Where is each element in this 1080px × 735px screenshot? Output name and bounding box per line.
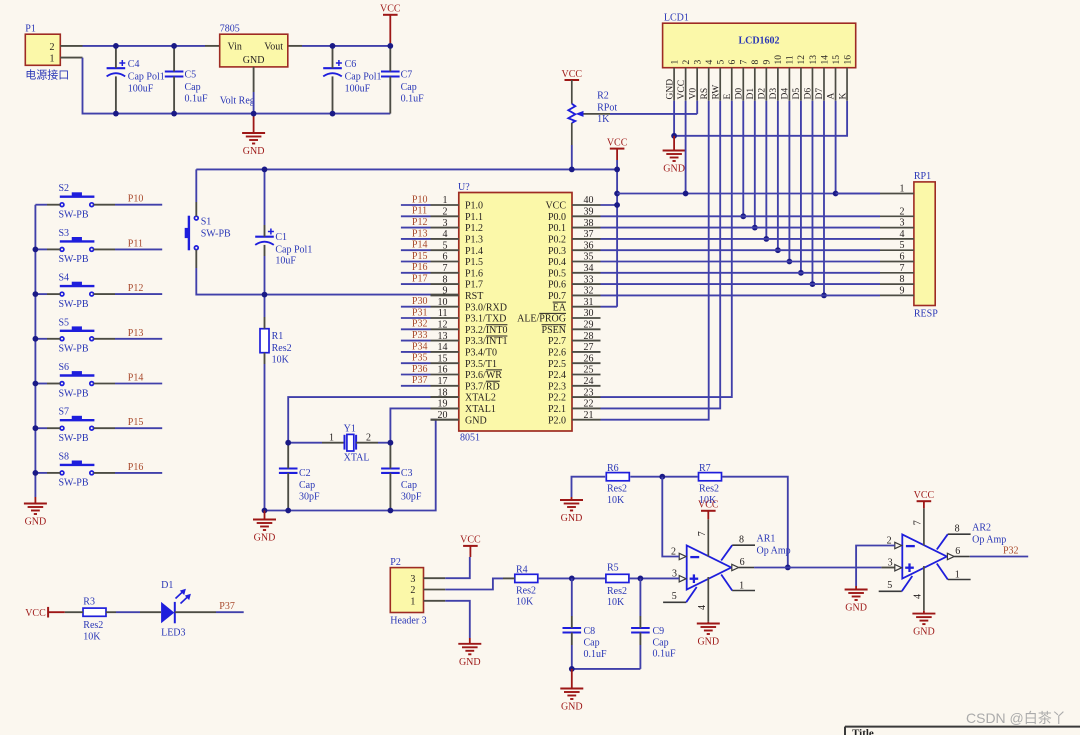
svg-text:6: 6 [900,252,905,263]
pin U? 7 [431,263,484,279]
svg-text:7: 7 [740,60,750,65]
capacitor C8 [563,578,608,669]
svg-text:P16: P16 [412,262,428,273]
pin U? XTAL1 [431,407,459,409]
svg-text:PSEN: PSEN [542,325,566,336]
svg-text:1: 1 [50,53,55,64]
wire LCD D4 [788,101,790,262]
svg-text:R3: R3 [83,596,95,607]
svg-text:GND: GND [254,533,276,544]
svg-text:P2.0: P2.0 [548,415,566,426]
capacitor C2 [279,443,320,511]
power VCC pot [562,69,583,104]
svg-text:VCC: VCC [914,490,935,501]
wire VCC column [616,160,618,307]
junction [330,111,336,117]
pin LCD 10 D3 [769,68,779,101]
svg-text:K: K [838,93,848,100]
pin U? 17 [431,376,500,392]
wire net stub [401,385,431,387]
svg-text:19: 19 [438,399,448,410]
svg-text:AR2: AR2 [972,523,991,534]
resistor R3 [72,596,116,642]
op IC U? 8051 body [458,182,572,444]
svg-text:R2: R2 [597,90,609,101]
wire net P37 [216,611,244,613]
pin LCD 6 E [723,68,733,101]
svg-text:Vout: Vout [264,42,283,53]
wire VCC bus [617,193,880,195]
wire P0.6 bus [601,283,881,285]
svg-text:P3.2/INT0: P3.2/INT0 [465,325,508,336]
pin U? 8 [431,274,484,290]
junction [638,576,644,582]
svg-text:R5: R5 [607,563,619,574]
svg-text:23: 23 [584,387,594,398]
junction [798,270,804,276]
junction [569,576,575,582]
junction [614,191,620,197]
pin P2-3 [424,577,446,579]
svg-text:ALE/PROG: ALE/PROG [517,314,566,325]
svg-text:P2.7: P2.7 [548,336,566,347]
svg-text:Vin: Vin [228,42,242,53]
svg-text:C8: C8 [584,626,596,637]
svg-text:GND: GND [465,415,487,426]
resistor R7 [699,463,722,506]
wire vcc-R3 [65,611,72,613]
pin U? 4 [431,229,484,245]
pin U? 29 [542,320,601,336]
svg-text:Res2: Res2 [699,484,719,495]
wire AR1 in- column [662,477,679,557]
svg-text:P31: P31 [412,307,428,318]
power VCC ar2 [914,490,935,508]
svg-text:P12: P12 [128,283,144,294]
svg-text:SW-PB: SW-PB [59,478,89,489]
svg-text:P0.5: P0.5 [548,268,566,279]
wire pot bottom [571,145,573,169]
connector P2 [390,557,426,626]
svg-text:30pF: 30pF [299,491,320,502]
pin U? 32 [548,286,601,302]
svg-text:1: 1 [955,569,960,580]
svg-text:GND: GND [243,55,265,66]
wire bottom rail [83,58,391,114]
svg-text:Cap: Cap [185,82,201,93]
svg-text:27: 27 [584,342,594,353]
ground GND p2 [458,638,481,668]
svg-text:Res2: Res2 [83,620,103,631]
pin U? 38 [548,218,601,234]
junction [763,236,769,242]
junction [810,281,816,287]
wire net stub [401,261,431,263]
junction [262,292,268,298]
svg-text:11: 11 [786,55,796,64]
wire rail to S2 [35,204,47,206]
svg-text:30pF: 30pF [401,491,422,502]
svg-text:SW-PB: SW-PB [59,344,89,355]
pin U? 9 [431,286,484,302]
ground GND r6 [560,497,583,524]
svg-text:0.1uF: 0.1uF [653,649,677,660]
svg-text:P33: P33 [412,330,428,341]
capacitor C9 [631,578,676,669]
svg-text:P34: P34 [412,341,428,352]
svg-text:D1: D1 [746,88,756,100]
wire P0.0 bus [601,215,881,217]
svg-text:4: 4 [443,229,448,240]
svg-text:P2.4: P2.4 [548,370,566,381]
pin U? 35 [548,252,601,268]
svg-text:5: 5 [887,580,892,591]
svg-text:Cap: Cap [584,638,600,649]
svg-text:2: 2 [50,42,55,53]
wire P0.3 bus [601,249,881,251]
wire LCD D5 [800,101,802,273]
pin S5 left [47,338,60,340]
svg-text:2: 2 [682,60,692,65]
svg-text:RW: RW [711,85,721,100]
svg-text:5: 5 [717,60,727,65]
svg-text:S7: S7 [59,407,70,418]
switch S7 [59,407,95,444]
svg-text:10K: 10K [516,597,534,608]
svg-text:39: 39 [584,207,594,218]
pin U? RST [431,294,459,296]
junction [387,43,393,49]
junction [569,666,575,672]
wire rail to S3 [35,248,47,250]
svg-text:XTAL1: XTAL1 [465,404,496,415]
pin RP1 7 [880,263,914,274]
pin P2-1 [424,600,446,602]
junction [33,470,39,476]
pin U? 14 [431,342,497,358]
svg-text:C4: C4 [128,59,140,70]
svg-text:26: 26 [584,353,594,364]
wire net stub [401,362,431,364]
svg-text:S5: S5 [59,317,70,328]
svg-text:P0.3: P0.3 [548,246,566,257]
svg-text:1: 1 [670,60,680,65]
wire LCD A [835,101,837,194]
wire rail to S7 [35,427,47,429]
junction [262,508,268,514]
wire P0.5 bus [601,272,881,274]
wire P0.2 bus [601,238,881,240]
svg-text:P1.7: P1.7 [465,280,483,291]
svg-text:0.1uF: 0.1uF [401,93,425,104]
svg-text:P11: P11 [412,206,427,217]
svg-text:8: 8 [443,274,448,285]
wire LCD VCC [685,101,687,194]
pin U? 10 [431,297,507,313]
ground GND xtal [253,511,276,544]
svg-text:Header 3: Header 3 [390,615,426,626]
wire net stub [401,317,431,319]
pin U? 3 [431,218,484,234]
svg-text:P2.5: P2.5 [548,359,566,370]
pin RP1 5 [880,240,914,251]
svg-text:AR1: AR1 [757,534,776,545]
svg-text:VCC: VCC [545,201,566,212]
pin LCD 8 D1 [746,68,756,101]
svg-text:100uF: 100uF [345,83,371,94]
svg-text:P15: P15 [412,251,428,262]
wire LCD K to GND [674,101,847,136]
ground GND ar2-4 [912,611,935,638]
svg-text:1: 1 [739,580,744,591]
svg-text:P14: P14 [128,373,144,384]
svg-text:25: 25 [584,365,594,376]
svg-text:31: 31 [584,297,594,308]
svg-text:P1.5: P1.5 [465,257,483,268]
svg-text:P0.1: P0.1 [548,223,566,234]
svg-text:VCC: VCC [25,608,46,619]
diode D1 LED3 [140,580,216,639]
capacitor C3 [381,443,422,511]
wire LCD D0 [742,101,744,217]
svg-text:37: 37 [584,229,594,240]
pin 7805 GND [253,67,255,92]
svg-text:GND: GND [697,637,719,648]
svg-text:P12: P12 [412,217,428,228]
svg-text:VCC: VCC [607,137,628,148]
wire Y1 left [288,442,322,444]
svg-text:P14: P14 [412,240,428,251]
svg-text:P2.1: P2.1 [548,404,566,415]
svg-text:35: 35 [584,252,594,263]
svg-text:4: 4 [697,605,708,610]
wire net stub [401,283,431,285]
svg-text:3: 3 [443,218,448,229]
pin LCD 4 RS [700,68,710,101]
pin U? 21 [548,410,601,426]
junction [388,440,394,446]
junction [752,225,758,231]
svg-text:3: 3 [693,60,703,65]
wire net stub [401,238,431,240]
svg-text:38: 38 [584,218,594,229]
svg-text:CSDN @白茶丫: CSDN @白茶丫 [966,710,1066,726]
svg-text:16: 16 [843,55,853,65]
junction [33,336,39,342]
svg-text:SW-PB: SW-PB [59,210,89,221]
pin U? 5 [431,240,484,256]
svg-text:P30: P30 [412,296,428,307]
svg-text:1K: 1K [597,114,610,125]
pin LCD 13 D6 [804,68,814,101]
op-amp AR2 [879,508,1007,611]
svg-text:9: 9 [900,285,905,296]
svg-text:0.1uF: 0.1uF [584,649,608,660]
pin S6 left [47,383,60,385]
svg-text:P1.6: P1.6 [465,268,483,279]
svg-text:VCC: VCC [562,69,583,80]
pin U? 31 [553,297,601,313]
pin LCD 9 D2 [758,68,768,101]
pin U? 23 [548,387,601,403]
svg-text:P1.4: P1.4 [465,246,483,257]
wire net P13 [115,338,162,340]
svg-text:SW-PB: SW-PB [59,299,89,310]
svg-text:8: 8 [739,535,744,546]
svg-text:7: 7 [697,531,708,536]
wire pot wiper to V0 [610,113,697,115]
svg-text:6: 6 [740,557,745,568]
wire net P10 [115,204,162,206]
pin S7 right [94,427,115,429]
svg-text:34: 34 [584,263,594,274]
svg-text:D0: D0 [734,88,744,100]
pin U? GND [431,419,459,421]
capacitor C4 [107,46,165,114]
svg-text:R6: R6 [607,463,619,474]
wire P2-3 vcc [445,557,470,578]
wire xtal gnd rail [265,420,436,511]
resistor R5 [606,563,629,608]
svg-text:D5: D5 [792,88,802,100]
svg-text:P2.2: P2.2 [548,393,566,404]
svg-text:C6: C6 [345,59,357,70]
svg-text:Volt Reg: Volt Reg [220,96,255,107]
svg-text:R7: R7 [699,463,711,474]
switch S1 [185,216,231,251]
svg-text:LED3: LED3 [161,628,185,639]
wire rail to S4 [35,293,47,295]
pin U? 36 [548,240,601,256]
svg-text:GND: GND [845,603,867,614]
wire rail to S6 [35,383,47,385]
junction [671,133,677,139]
wire LCD GND [673,101,675,136]
pin U? 16 [431,365,503,381]
svg-text:S6: S6 [59,362,70,373]
svg-text:XTAL: XTAL [344,453,370,464]
svg-text:P17: P17 [412,274,428,285]
wire rail to S5 [35,338,47,340]
wire C8-C9 gnd [572,668,641,670]
pin P1-2 [60,45,82,47]
connector P1 [25,24,69,82]
svg-text:Cap: Cap [653,637,669,648]
svg-text:Cap: Cap [401,480,417,491]
junction [171,43,177,49]
wire net P15 [115,427,162,429]
wire switch rail [34,205,36,497]
svg-text:8: 8 [955,524,960,535]
pin U? 24 [548,376,601,392]
pin U? 28 [548,331,601,347]
pin U? 19 [431,399,496,415]
wire R5 to AR1 [629,577,679,579]
svg-text:LCD1: LCD1 [664,12,689,23]
pin U? 27 [548,342,601,358]
svg-text:7: 7 [913,520,924,525]
switch S8 [59,451,95,488]
svg-text:Cap Pol1: Cap Pol1 [128,71,165,82]
svg-text:D3: D3 [769,88,779,100]
svg-text:D2: D2 [758,88,768,100]
svg-text:3: 3 [888,558,893,569]
svg-text:10K: 10K [83,631,101,642]
svg-text:29: 29 [584,320,594,331]
svg-text:13: 13 [809,55,819,65]
junction [614,202,620,208]
pin LCD 2 VCC [677,68,687,101]
svg-text:VCC: VCC [698,500,719,511]
regulator U 7805 [220,24,288,107]
svg-text:Y1: Y1 [344,423,356,434]
svg-text:P0.2: P0.2 [548,235,566,246]
wire net stub [401,215,431,217]
pin S2 right [94,204,115,206]
svg-text:GND: GND [243,146,265,157]
wire LCD RW [601,101,721,409]
svg-text:12: 12 [797,55,807,65]
svg-text:8: 8 [751,60,761,65]
potentiometer R2 [568,90,617,145]
resistor R4 [503,565,538,608]
wire S1 to RST [196,268,430,295]
capacitor C7 [381,46,424,114]
ground GND switches [24,497,47,528]
pin LCD 14 D7 [815,68,825,101]
wire net stub [401,272,431,274]
svg-text:P0.6: P0.6 [548,280,566,291]
svg-text:GND: GND [913,627,935,638]
svg-text:P16: P16 [128,462,144,473]
junction [659,474,665,480]
pin RP1 6 [880,252,914,263]
svg-text:13: 13 [438,331,448,342]
wire net P11 [115,248,162,250]
svg-text:33: 33 [584,274,594,285]
svg-text:10uF: 10uF [275,256,296,267]
wire net stub [401,374,431,376]
svg-text:A: A [827,93,837,100]
pin S1 top [195,202,197,216]
svg-text:RP1: RP1 [914,171,931,182]
pin 7805 Vout [288,45,302,47]
wire XTAL1 [390,408,430,442]
svg-text:SW-PB: SW-PB [59,388,89,399]
svg-text:VCC: VCC [380,4,401,15]
pin LCD 5 RW [711,68,721,101]
title block [845,727,1080,735]
svg-text:100uF: 100uF [128,83,154,94]
svg-text:30: 30 [584,308,594,319]
svg-text:Res2: Res2 [272,343,292,354]
svg-text:P0.7: P0.7 [548,291,566,302]
wire LCD D2 [765,101,767,239]
svg-text:D7: D7 [815,88,825,100]
svg-text:1: 1 [443,195,448,206]
wire P2-2 to R4 [445,578,503,589]
svg-text:P3.5/T1: P3.5/T1 [465,359,497,370]
svg-text:16: 16 [438,365,448,376]
svg-text:2: 2 [366,433,371,444]
pin LCD 15 A [827,68,837,101]
pin RP1 1 [880,184,914,195]
power VCC led [25,607,65,619]
svg-text:RST: RST [465,291,483,302]
junction [569,167,575,173]
pin S4 left [47,293,60,295]
junction [251,111,257,117]
